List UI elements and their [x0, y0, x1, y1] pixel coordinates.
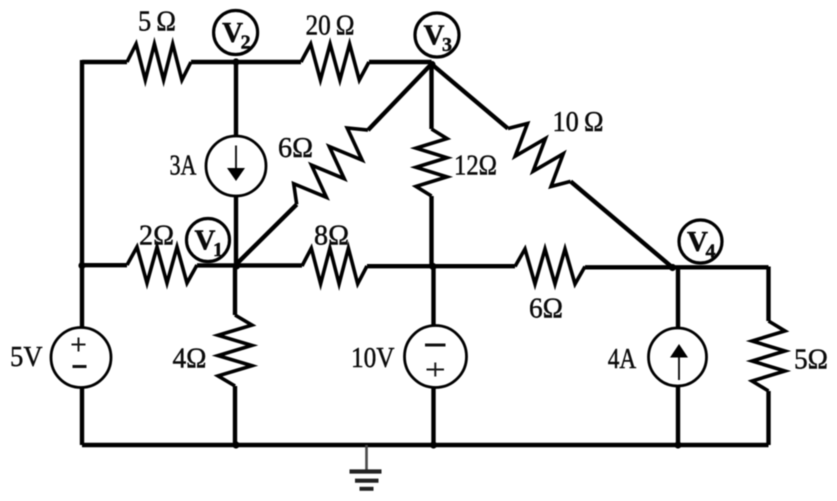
svg-text:3A: 3A — [170, 151, 198, 182]
svg-text:10V: 10V — [351, 343, 395, 374]
svg-text:2Ω: 2Ω — [139, 221, 174, 252]
svg-text:2: 2 — [241, 32, 251, 54]
svg-text:20 Ω: 20 Ω — [306, 10, 355, 41]
svg-text:5Ω: 5Ω — [794, 345, 828, 376]
svg-text:4: 4 — [706, 241, 716, 263]
svg-text:5V: 5V — [10, 342, 43, 373]
svg-text:4Ω: 4Ω — [173, 344, 207, 375]
svg-text:12Ω: 12Ω — [454, 151, 497, 182]
svg-text:6Ω: 6Ω — [529, 294, 563, 325]
svg-text:4A: 4A — [608, 344, 637, 375]
svg-text:5 Ω: 5 Ω — [138, 7, 176, 38]
svg-text:6Ω: 6Ω — [278, 133, 313, 164]
svg-text:10 Ω: 10 Ω — [553, 107, 604, 138]
svg-text:1: 1 — [213, 239, 223, 261]
svg-text:3: 3 — [442, 34, 452, 56]
svg-text:8Ω: 8Ω — [314, 221, 349, 252]
